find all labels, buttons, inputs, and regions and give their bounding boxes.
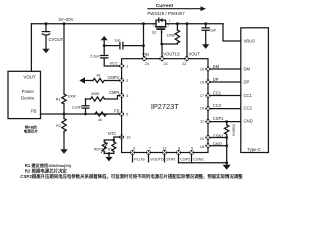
svg-text:Type-C: Type-C (247, 147, 260, 152)
pin 19 pad (119, 134, 124, 139)
ground main (223, 165, 231, 170)
pin 14 pad (205, 106, 210, 111)
wire CC1 (210, 95, 240, 97)
capacitor 1uF vbus (205, 24, 207, 28)
svg-text:200K: 200K (91, 92, 100, 96)
svg-text:23: 23 (164, 62, 168, 66)
svg-text:16: 16 (200, 68, 204, 72)
svg-text:8: 8 (178, 146, 180, 150)
resistor 100K gate (176, 22, 179, 25)
svg-text:VOUT: VOUT (23, 74, 36, 79)
svg-text:CMPV: CMPV (107, 75, 119, 80)
ground NTC (105, 157, 112, 162)
svg-text:DP: DP (213, 77, 219, 82)
svg-text:R1: R1 (56, 98, 61, 102)
wire stub pin8 (178, 155, 180, 163)
resistor 4k FB (95, 112, 106, 116)
resistor 4k CMPV (93, 78, 104, 82)
node FB cap branch (84, 113, 87, 116)
resistor R3 (113, 140, 115, 142)
svg-text:6: 6 (133, 146, 135, 150)
wire NTC pin19 (114, 137, 122, 140)
wire VBUS to connector (223, 24, 241, 41)
thermistor RNTC (103, 140, 105, 142)
svg-text:RNTC: RNTC (94, 147, 104, 151)
svg-text:PW3425 / PW3407: PW3425 / PW3407 (147, 11, 185, 16)
pin 11 pad (205, 119, 210, 124)
node VCC cap junction (103, 44, 106, 47)
wire NTC bottom (104, 152, 114, 154)
power device box (8, 71, 41, 118)
wire R1 top (63, 24, 65, 94)
wire top rail right of Q1 (166, 23, 223, 25)
svg-text:CC1: CC1 (244, 93, 253, 98)
pin 12 pad (162, 150, 167, 155)
wire pin22 riser (186, 24, 188, 59)
wire GND pin18 (210, 145, 226, 147)
svg-text:Q1: Q1 (152, 31, 157, 35)
wire DP (210, 81, 240, 83)
svg-text:VBUS: VBUS (244, 38, 256, 43)
svg-text:1: 1 (126, 65, 128, 69)
svg-text:CMPI: CMPI (109, 90, 119, 95)
resistor R2 (63, 114, 65, 119)
pin 22 pad (184, 56, 189, 61)
svg-text:CC2: CC2 (244, 106, 253, 111)
svg-text:GND: GND (244, 119, 253, 124)
note line 1 (20, 162, 243, 180)
svg-text:VOUTD: VOUTD (150, 157, 164, 162)
svg-text:CC2: CC2 (213, 103, 222, 108)
svg-text:5: 5 (126, 113, 128, 117)
node VIN cap junction (142, 44, 145, 47)
svg-text:22: 22 (182, 62, 186, 66)
transistor Q1 (156, 20, 159, 24)
svg-text:4: 4 (161, 31, 163, 35)
svg-text:1uF: 1uF (210, 29, 217, 33)
pin numbers (126, 62, 204, 150)
node R1 top junction (63, 22, 66, 25)
wire CSN1 (210, 137, 226, 139)
wire stub pin7 (148, 155, 150, 162)
svg-text:R3: R3 (108, 147, 112, 151)
pin 6 pad (130, 150, 135, 155)
svg-text:11: 11 (200, 120, 204, 124)
svg-text:3V~30V: 3V~30V (58, 17, 73, 22)
pin 10 pad (205, 135, 210, 140)
label 3V~30V (58, 17, 73, 22)
svg-text:VOUT1S: VOUT1S (163, 52, 180, 57)
wire top rail (31, 23, 156, 25)
pin 16 pad (205, 66, 210, 71)
node GND junction (225, 144, 228, 147)
svg-text:FB: FB (31, 108, 37, 113)
label Current (156, 3, 174, 9)
wire VOUT riser from power device (30, 24, 32, 72)
pin 1 pad (119, 63, 124, 68)
wire CC2 (210, 108, 240, 110)
wire stub pin6 (132, 155, 134, 162)
svg-text:CSP1: CSP1 (213, 116, 224, 121)
svg-text:CSP2越高升压期间电压电参数关系越着降低，可监测时可按不同: CSP2越高升压期间电压电参数关系越着降低，可监测时可按不同列电源芯片搭配实际情… (20, 173, 243, 180)
wire ground bus (179, 162, 227, 164)
resistor R1 (62, 94, 66, 104)
svg-text:2: 2 (126, 79, 128, 83)
ground CVOUT (42, 49, 49, 54)
capacitor CVOUT (45, 24, 47, 32)
svg-text:CSP2: CSP2 (180, 157, 190, 162)
svg-text:CSN2: CSN2 (193, 157, 203, 162)
wire gate to 100K (162, 43, 178, 45)
node pin22 rail junction (186, 22, 189, 25)
svg-text:4k: 4k (98, 118, 102, 122)
node VIN rail junction (142, 22, 145, 25)
svg-text:14: 14 (200, 107, 204, 111)
svg-text:19: 19 (126, 136, 130, 140)
node gate junction (160, 43, 163, 46)
label power device caption (24, 125, 39, 134)
resistor 200K (91, 97, 105, 101)
svg-text:VCC: VCC (110, 60, 119, 65)
ground CMPV arrow left (79, 77, 85, 84)
pin 15 pad (205, 79, 210, 84)
node FB R1R2 (63, 113, 66, 116)
node 1uF out junction (204, 22, 207, 25)
node CSP1 junction (225, 120, 228, 123)
svg-text:STAT: STAT (166, 157, 176, 162)
svg-text:3.3nF: 3.3nF (72, 106, 82, 110)
svg-text:17: 17 (200, 94, 204, 98)
node NTC top (113, 139, 116, 142)
pin 8 pad (176, 150, 181, 155)
pin 23 pad (159, 56, 164, 61)
wire VIN riser (143, 24, 145, 59)
svg-text:9: 9 (191, 146, 193, 150)
ground R2 (60, 149, 67, 154)
svg-text:Power: Power (22, 89, 35, 94)
svg-text:2.2uF: 2.2uF (90, 55, 100, 59)
svg-text:FB: FB (114, 108, 120, 113)
svg-text:NTC: NTC (108, 131, 116, 136)
svg-text:DM: DM (244, 67, 251, 72)
svg-text:3: 3 (126, 94, 128, 98)
wire DM (210, 68, 240, 70)
svg-text:PLUG: PLUG (134, 157, 145, 162)
svg-text:DM: DM (213, 64, 220, 69)
node CSN1 junction (225, 136, 228, 139)
svg-text:电源芯片: 电源芯片 (24, 129, 39, 134)
svg-text:VIN: VIN (142, 52, 149, 57)
wire CMPV (85, 80, 93, 82)
svg-text:24: 24 (145, 62, 149, 66)
capacitor 2.2uF (101, 55, 108, 57)
svg-text:100K: 100K (67, 94, 76, 98)
svg-text:DP: DP (244, 80, 250, 85)
pin 2 pad (119, 78, 124, 83)
svg-text:Device: Device (21, 96, 35, 101)
wire stub pin12 (164, 155, 166, 162)
node CVOUT junction (45, 22, 48, 25)
resistor 5mOhm (226, 122, 228, 125)
capacitor 3.3nF (85, 108, 87, 114)
svg-text:IP2723T: IP2723T (151, 102, 179, 111)
ground 1uF vbus (202, 44, 209, 49)
svg-text:10: 10 (200, 137, 204, 141)
svg-text:15: 15 (200, 81, 204, 85)
svg-text:R2: R2 (56, 124, 61, 128)
pin 7 pad (146, 150, 151, 155)
wire FB net (41, 113, 122, 115)
wire CMPI branch (86, 98, 91, 100)
connector Type-C box (241, 28, 269, 153)
pin 24 pad (142, 56, 147, 61)
svg-text:7: 7 (149, 146, 151, 150)
wire CSP1 GND (210, 121, 240, 123)
svg-text:CVOUT: CVOUT (49, 37, 64, 42)
wire pin23 riser (161, 45, 163, 59)
svg-text:1uF: 1uF (114, 39, 121, 43)
label CVOUT (49, 37, 64, 42)
pin 18 pad (205, 143, 210, 148)
svg-text:18: 18 (200, 145, 204, 149)
pin 9 pad (189, 150, 194, 155)
pin 17 pad (205, 93, 210, 98)
power arrow up VCC (101, 36, 108, 40)
label PW3425 / PW3407 (147, 11, 185, 16)
capacitor 1uF vin (104, 45, 120, 47)
svg-text:VOUT: VOUT (189, 52, 201, 57)
svg-text:CC1: CC1 (213, 90, 222, 95)
pin 3 pad (119, 93, 124, 98)
current direction arrow (148, 8, 201, 10)
net labels around IC (107, 52, 224, 147)
svg-text:12: 12 (162, 146, 166, 150)
wire stub pin9 (191, 155, 193, 163)
IC IP2723T body (122, 59, 208, 153)
node ground bus junction (225, 161, 228, 164)
svg-text:4k: 4k (97, 74, 101, 78)
svg-text:100K: 100K (167, 34, 176, 38)
pin 5 pad (119, 111, 124, 116)
svg-text:5mOhm: 5mOhm (231, 124, 235, 136)
